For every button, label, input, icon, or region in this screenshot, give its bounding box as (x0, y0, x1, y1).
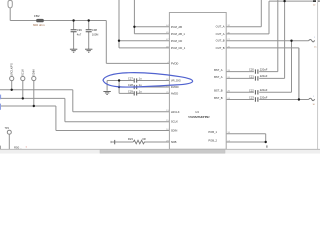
svg-text:VR_DIG: VR_DIG (171, 79, 181, 83)
svg-text:TP2: TP2 (5, 127, 10, 130)
svg-text:PCM_CD: PCM_CD (171, 39, 182, 43)
svg-text:SCLK: SCLK (21, 69, 25, 76)
svg-text:C29: C29 (128, 90, 133, 94)
svg-text:C98: C98 (92, 28, 97, 32)
svg-text:U4: U4 (195, 110, 199, 114)
svg-text:SDIN: SDIN (32, 70, 36, 76)
svg-text:600 ohm: 600 ohm (33, 23, 45, 27)
svg-text:LRCLK: LRCLK (171, 110, 180, 114)
svg-text:1u: 1u (139, 90, 142, 94)
svg-text:BST_B: BST_B (214, 96, 223, 100)
svg-text:220uF: 220uF (260, 74, 268, 78)
svg-text:...: ... (20, 145, 23, 149)
svg-text:220uF: 220uF (260, 88, 268, 92)
svg-text:C20: C20 (249, 68, 254, 72)
svg-text:PCM_AB_1: PCM_AB_1 (171, 32, 186, 36)
svg-text:0R: 0R (142, 137, 145, 141)
svg-text:LRCLK/FS: LRCLK/FS (10, 63, 14, 76)
svg-text:OUT_A: OUT_A (216, 32, 225, 36)
svg-text:OUT_B: OUT_B (216, 46, 225, 50)
svg-text:AVDD: AVDD (171, 91, 178, 95)
svg-text:DVDD: DVDD (171, 85, 179, 89)
svg-text:POB_1: POB_1 (208, 130, 217, 134)
svg-text:100N: 100N (92, 32, 98, 36)
svg-text:SDIN: SDIN (171, 129, 177, 133)
svg-text:PVDD: PVDD (171, 61, 179, 65)
svg-text:FB2: FB2 (34, 14, 40, 18)
svg-text:PCM_AB: PCM_AB (171, 25, 182, 29)
svg-text:C22: C22 (249, 88, 254, 92)
svg-text:OUT_B: OUT_B (216, 39, 225, 43)
svg-text:220uF: 220uF (260, 95, 268, 99)
svg-text:BST_A: BST_A (214, 68, 223, 72)
svg-text:1u: 1u (139, 83, 142, 87)
svg-text:C21: C21 (249, 75, 254, 79)
svg-text:SCLK: SCLK (171, 120, 178, 124)
svg-text:BST_B: BST_B (214, 89, 223, 93)
svg-text:C23: C23 (249, 96, 254, 100)
svg-text:OUT_A: OUT_A (216, 25, 225, 29)
svg-text:SDB: SDB (171, 140, 177, 144)
svg-text:220uF: 220uF (260, 67, 268, 71)
svg-text:POB_2: POB_2 (208, 138, 217, 142)
svg-text:R23: R23 (128, 137, 133, 141)
svg-text:C28: C28 (128, 83, 133, 87)
svg-text:4u7: 4u7 (77, 32, 82, 36)
svg-text:BST_A: BST_A (214, 75, 223, 79)
svg-text:TAS5825MRHBR: TAS5825MRHBR (188, 115, 210, 119)
svg-text:C99: C99 (77, 28, 82, 32)
svg-text:C27: C27 (128, 77, 133, 81)
svg-text:1u: 1u (139, 77, 142, 81)
svg-text:PCM_CD_1: PCM_CD_1 (171, 46, 186, 50)
